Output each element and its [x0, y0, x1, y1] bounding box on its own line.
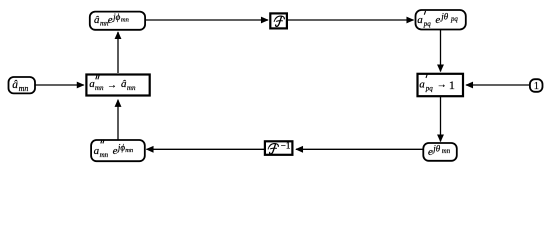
svg-text:e: e [108, 14, 113, 26]
svg-text:mn: mn [121, 16, 129, 23]
svg-text:mn: mn [95, 84, 104, 92]
svg-text:mn: mn [19, 84, 29, 93]
svg-text:e: e [435, 14, 440, 26]
svg-text:mn: mn [127, 84, 136, 92]
svg-text:1: 1 [449, 78, 455, 92]
svg-text:jϕ: jϕ [117, 142, 126, 152]
svg-text:1: 1 [534, 81, 539, 92]
svg-text:pq: pq [450, 16, 458, 23]
svg-text:→: → [437, 79, 447, 90]
svg-text:jθ: jθ [440, 12, 449, 22]
svg-text:jθ: jθ [432, 144, 441, 154]
svg-text:mn: mn [125, 147, 133, 154]
svg-text:−1: −1 [281, 140, 291, 150]
svg-text:→: → [107, 80, 117, 91]
svg-text:e: e [113, 145, 118, 157]
svg-text:pq: pq [423, 20, 432, 28]
svg-text:pq: pq [425, 85, 434, 93]
svg-text:â: â [12, 79, 18, 91]
svg-text:a: a [419, 79, 425, 91]
svg-text:mn: mn [442, 148, 451, 155]
svg-text:e: e [428, 146, 433, 158]
svg-text:jϕ: jϕ [112, 12, 121, 22]
svg-text:mn: mn [100, 151, 109, 159]
svg-text:a: a [417, 14, 423, 26]
